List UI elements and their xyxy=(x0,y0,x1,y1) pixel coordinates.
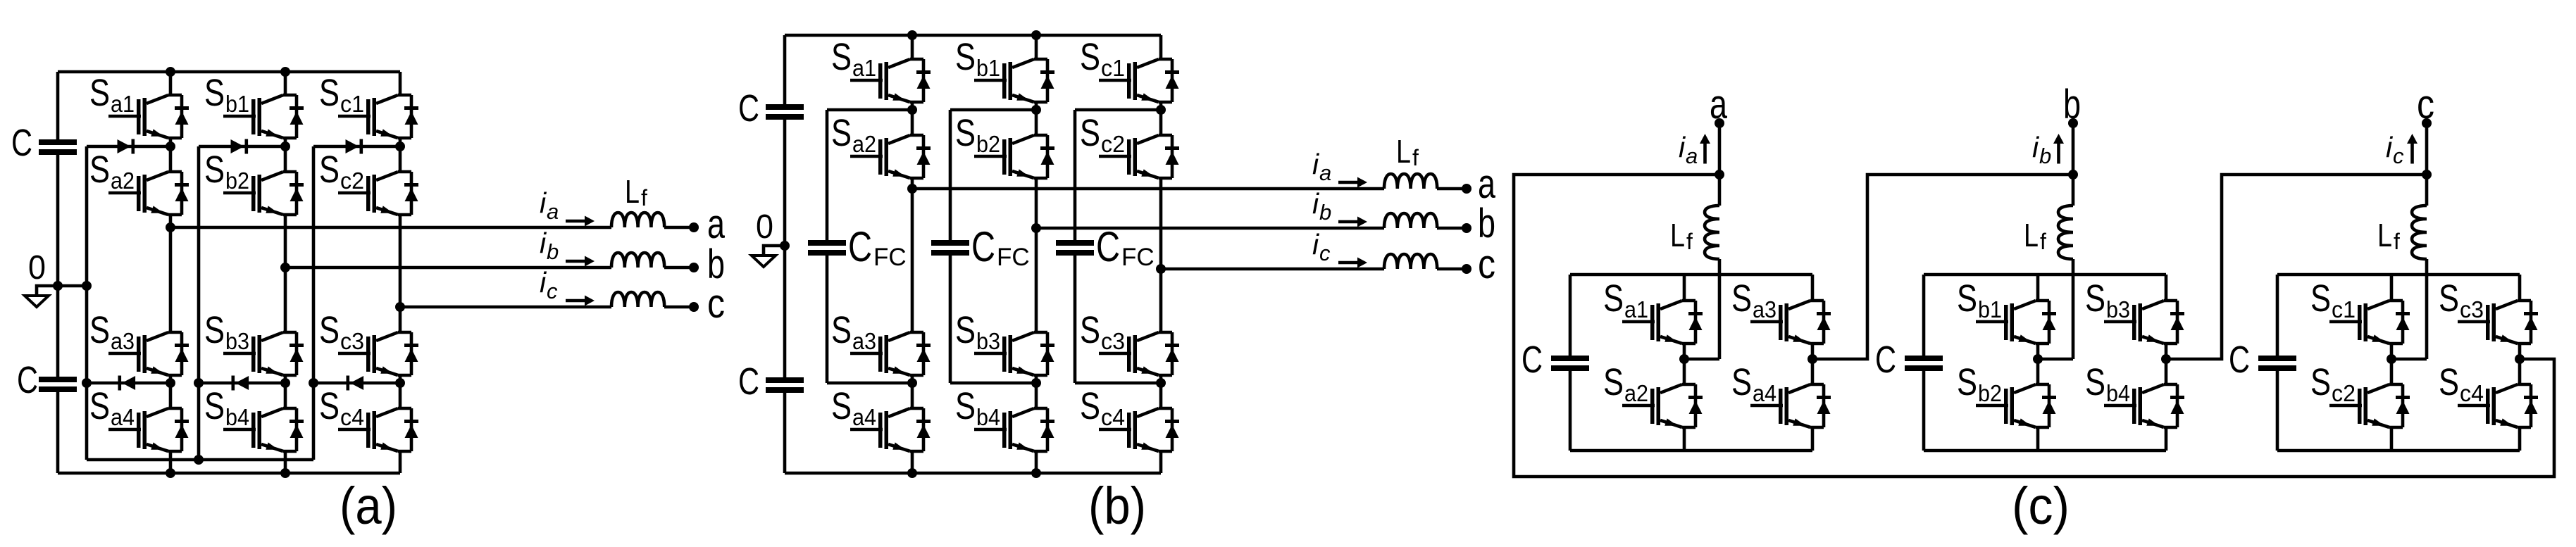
svg-text:C: C xyxy=(738,87,759,130)
junction: bridge c left leg midpoint (c) xyxy=(2387,354,2396,364)
svg-text:S: S xyxy=(1731,277,1752,320)
wire: leg c between Sc1 and Sc2 (b) xyxy=(1159,102,1163,135)
svg-text:c3: c3 xyxy=(1101,328,1125,354)
transistor Sb2 (IGBT, c) xyxy=(1957,361,2056,427)
junction: leg b between Sb3/Sb4 (b) xyxy=(1031,378,1041,388)
wire: output phase c (b) xyxy=(1161,268,1384,271)
transistor Sc2 (IGBT, b) xyxy=(1080,112,1179,178)
svg-text:a: a xyxy=(1686,144,1698,168)
inductor Lf phase c (b) xyxy=(1384,254,1437,269)
ground symbol (neutral, b) xyxy=(752,246,785,267)
svg-text:c2: c2 xyxy=(1101,131,1125,157)
wire: neutral link from rail to clamp rail (a) xyxy=(58,284,87,288)
svg-text:b4: b4 xyxy=(2106,380,2130,406)
svg-text:a3: a3 xyxy=(1753,296,1777,322)
junction: leg b between Sb3/Sb4 (a) xyxy=(280,378,290,388)
wire: upper clamp diode wire leg a (a) xyxy=(87,145,170,149)
junction: leg b at bottom rail (b) xyxy=(1031,468,1041,478)
junction: clamp rail b at lower diode (a) xyxy=(194,378,204,388)
wire: leg b collector lead Sb1 (a) xyxy=(284,72,287,95)
svg-text:FC: FC xyxy=(997,244,1030,271)
capacitor CFC leg c (b) xyxy=(1056,240,1094,256)
wire: Lf lower lead phase b (c) xyxy=(2072,259,2075,359)
svg-text:S: S xyxy=(89,385,110,427)
transistor Sb1 (IGBT, c) xyxy=(1957,277,2056,344)
terminal a (c) xyxy=(1715,118,1724,128)
wire: leg c collector lead Sc1 (b) xyxy=(1159,35,1163,59)
svg-text:c: c xyxy=(1319,241,1331,265)
wire: bridge a left leg emitter lead (c) xyxy=(1683,427,1686,451)
svg-text:c3: c3 xyxy=(2460,296,2484,322)
terminal c (b) xyxy=(1462,264,1471,274)
wire: leg a emitter lead Sa4 (a) xyxy=(169,451,173,473)
junction: leg b at top rail (b) xyxy=(1031,30,1041,40)
svg-text:C: C xyxy=(1875,339,1896,381)
junction: clamp rail c at lower diode (a) xyxy=(309,378,318,388)
wire: output phase a (b) xyxy=(912,187,1384,191)
svg-text:S: S xyxy=(319,309,340,351)
node a: phase tap on leg a (b) xyxy=(907,184,917,194)
label CFC leg c (b) xyxy=(1096,223,1155,271)
wire: leg b emitter lead Sb4 (a) xyxy=(284,451,287,473)
junction: neutral at clamp rail a xyxy=(82,281,92,291)
svg-text:S: S xyxy=(89,149,110,191)
wire: bridge a right leg mid section (c) xyxy=(1811,344,1815,384)
svg-text:S: S xyxy=(1957,361,1977,403)
wire: inductor to terminal b (b) xyxy=(1437,227,1467,230)
wire: bridge a left leg collector lead (c) xyxy=(1683,275,1686,301)
wire: bridge c midpoint tap link (c) xyxy=(2391,358,2427,361)
wire: Lf upper lead phase a (c) xyxy=(1718,175,1722,206)
svg-text:c2: c2 xyxy=(340,168,364,194)
ground symbol (neutral, a) xyxy=(25,286,58,307)
capacitor C (lower DC-link, b) xyxy=(766,377,804,393)
svg-text:S: S xyxy=(319,72,340,114)
wire: flying-cap top link leg c (b) xyxy=(1075,108,1161,112)
junction: leg b at bottom rail (a) xyxy=(280,468,290,478)
svg-text:C: C xyxy=(17,359,38,401)
svg-text:S: S xyxy=(831,385,852,427)
svg-text:a: a xyxy=(1710,82,1728,127)
current label ic (b) xyxy=(1312,228,1331,265)
svg-text:L: L xyxy=(1670,217,1685,253)
terminal c (c) xyxy=(2422,118,2432,128)
wire: leg c output section (b) xyxy=(1159,178,1163,332)
transistor Sb3 (IGBT, c) xyxy=(2085,277,2184,344)
svg-text:c: c xyxy=(2393,144,2404,168)
svg-text:a: a xyxy=(547,199,559,224)
wire: inductor to terminal a (a) xyxy=(664,226,694,230)
svg-text:S: S xyxy=(204,72,225,114)
wire: output phase b (a) xyxy=(285,266,611,270)
wire: leg b output section (a) xyxy=(284,215,287,332)
wire: bridge a left edge upper (c) xyxy=(1569,275,1572,356)
svg-text:c: c xyxy=(707,281,725,327)
wire: flying-cap rail upper b (b) xyxy=(949,110,952,240)
wire: output phase c (a) xyxy=(400,306,611,309)
svg-text:b3: b3 xyxy=(225,328,249,354)
label CFC leg a (b) xyxy=(848,223,907,271)
wire: leg a output section (a) xyxy=(169,215,173,332)
svg-text:a: a xyxy=(1319,161,1331,185)
transistor Sa1 (IGBT, b) xyxy=(831,36,931,102)
svg-text:S: S xyxy=(319,385,340,427)
capacitor C (DC-link bridge c, c) xyxy=(2258,356,2296,371)
circuit (a): three-level NPC inverter xyxy=(11,67,726,535)
inductor Lf phase b (b) xyxy=(1384,213,1437,228)
svg-text:b: b xyxy=(1478,201,1495,246)
svg-text:c4: c4 xyxy=(1101,404,1125,430)
svg-text:b3: b3 xyxy=(976,328,1000,354)
junction: leg a between Sa3/Sa4 (a) xyxy=(166,378,175,388)
svg-text:c4: c4 xyxy=(2460,380,2484,406)
terminal b (c) xyxy=(2068,118,2078,128)
current label ib (c) xyxy=(2032,131,2051,168)
wire: bridge a right leg emitter lead (c) xyxy=(1811,427,1815,451)
transistor Sb4 (IGBT, b) xyxy=(955,385,1054,451)
wire: flying-cap rail upper c (b) xyxy=(1074,110,1077,240)
wire: leg c between Sc1 and Sc2 (a) xyxy=(399,138,402,172)
svg-text:a1: a1 xyxy=(1624,296,1648,322)
wire: leg b between Sb1 and Sb2 (a) xyxy=(284,138,287,172)
current label ic (c) xyxy=(2386,131,2404,168)
junction: leg a at bottom rail (b) xyxy=(907,468,917,478)
wire: clamp rail a vertical (a) xyxy=(85,146,89,460)
wire: leg a collector lead Sa1 (a) xyxy=(169,72,173,95)
svg-text:S: S xyxy=(204,149,225,191)
inductor Lf phase b (a) xyxy=(611,253,664,268)
svg-text:(a): (a) xyxy=(340,477,397,535)
svg-text:FC: FC xyxy=(1121,244,1155,271)
wire: upper clamp diode wire leg b (a) xyxy=(199,145,285,149)
svg-text:S: S xyxy=(955,385,976,427)
current label ia (b) xyxy=(1312,148,1331,185)
svg-text:0: 0 xyxy=(28,249,46,287)
wire: bridge b right leg mid section (c) xyxy=(2165,344,2168,384)
transistor Sa4 (IGBT, b) xyxy=(831,385,931,451)
svg-text:S: S xyxy=(1603,361,1624,403)
svg-text:b4: b4 xyxy=(976,404,1000,430)
node b: phase tap on leg b (a) xyxy=(280,263,290,272)
svg-text:c4: c4 xyxy=(340,404,364,430)
svg-text:b1: b1 xyxy=(1978,296,2002,322)
svg-text:a3: a3 xyxy=(111,328,135,354)
wire: flying-cap bottom link leg c (b) xyxy=(1075,382,1161,385)
current label ic (a) xyxy=(540,266,558,303)
wire: leg a emitter lead Sa4 (b) xyxy=(911,451,914,473)
wire: inductor to terminal a (b) xyxy=(1437,187,1467,191)
wire: bridge-b output to phase-c node (c) xyxy=(2166,175,2427,359)
svg-text:S: S xyxy=(1957,277,1977,320)
svg-text:b: b xyxy=(1319,200,1331,225)
wire: left DC rail upper segment (a) xyxy=(56,72,60,139)
svg-text:S: S xyxy=(955,309,976,351)
wire: terminal a lead (c) xyxy=(1718,123,1722,175)
current arrow ib (c) xyxy=(2053,134,2064,164)
wire: top DC rail (a) xyxy=(58,70,400,74)
wire: bridge c left leg emitter lead (c) xyxy=(2390,427,2394,451)
capacitor C (lower DC-link, a) xyxy=(39,377,77,392)
transistor Sb2 (IGBT, b) xyxy=(955,112,1054,178)
wire: Lf upper lead phase b (c) xyxy=(2072,175,2075,206)
junction: leg c between Sc1/Sc2 (a) xyxy=(395,142,405,151)
wire: top DC rail (b) xyxy=(785,34,1161,37)
svg-text:S: S xyxy=(831,309,852,351)
inductor Lf phase a (b) xyxy=(1384,174,1437,189)
svg-text:S: S xyxy=(2310,361,2331,403)
node b: phase tap on leg b (b) xyxy=(1031,223,1041,233)
svg-text:S: S xyxy=(955,36,976,78)
svg-text:c: c xyxy=(2417,82,2434,127)
junction: neutral at left rail (a) xyxy=(53,281,63,291)
wire: leg c emitter lead Sc4 (b) xyxy=(1159,451,1163,473)
circuit (c): cascaded H-bridge inverter (delta-connected) xyxy=(1514,82,2554,535)
svg-text:S: S xyxy=(1080,309,1100,351)
svg-text:b2: b2 xyxy=(1978,380,2002,406)
wire: bridge c bottom rail (c) xyxy=(2277,449,2520,453)
terminal a (b) xyxy=(1462,184,1471,194)
wire: inductor to terminal c (a) xyxy=(664,306,694,309)
transistor Sb3 (IGBT, b) xyxy=(955,309,1054,375)
svg-text:L: L xyxy=(2024,217,2039,253)
junction: leg a between Sa3/Sa4 (b) xyxy=(907,378,917,388)
svg-text:C: C xyxy=(11,122,32,164)
wire: flying-cap rail lower b (b) xyxy=(949,256,952,383)
current arrow ib (b) xyxy=(1338,217,1367,227)
svg-text:c2: c2 xyxy=(2332,380,2356,406)
svg-text:c1: c1 xyxy=(340,91,364,117)
junction: bridge b right leg midpoint (c) xyxy=(2161,354,2171,364)
clamp diode Dc6 (lower, a) xyxy=(347,376,364,391)
svg-text:(b): (b) xyxy=(1088,477,1146,535)
svg-text:S: S xyxy=(2085,277,2105,320)
junction: clamp rail a at lower diode (a) xyxy=(82,378,92,388)
junction: leg b at top rail (a) xyxy=(280,67,290,77)
wire: bridge b top rail (c) xyxy=(1924,273,2166,277)
current arrow ic (a) xyxy=(566,296,595,306)
svg-text:C: C xyxy=(738,360,759,403)
wire: flying-cap bottom link leg a (b) xyxy=(827,382,912,385)
wire: bridge b bottom rail (c) xyxy=(1924,449,2166,453)
wire: output phase a (a) xyxy=(170,226,611,230)
terminal c (a) xyxy=(689,302,699,312)
wire: lower clamp diode wire leg b (a) xyxy=(199,382,285,385)
svg-text:S: S xyxy=(831,112,852,154)
junction: clamp rail b at tie (a) xyxy=(194,455,204,465)
svg-text:a4: a4 xyxy=(111,404,135,430)
wire: Lf upper lead phase c (c) xyxy=(2425,175,2429,206)
junction: leg b between Sb1/Sb2 (b) xyxy=(1031,105,1041,115)
svg-text:a: a xyxy=(707,201,726,247)
terminal b (b) xyxy=(1462,223,1471,233)
svg-text:(c): (c) xyxy=(2012,477,2070,535)
wire: bottom DC rail (b) xyxy=(785,472,1161,475)
transistor Sb1 (IGBT, a) xyxy=(204,72,304,138)
label CFC leg b (b) xyxy=(971,223,1030,271)
svg-text:FC: FC xyxy=(873,244,907,271)
label Lf phase a (c) xyxy=(1670,217,1693,254)
transistor Sa4 (IGBT, a) xyxy=(89,385,189,451)
capacitor C (upper DC-link, b) xyxy=(766,104,804,120)
svg-text:c: c xyxy=(547,279,558,303)
wire: bridge c right leg collector lead (c) xyxy=(2518,275,2522,301)
junction: leg a between Sa1/Sa2 (a) xyxy=(166,142,175,151)
wire: output phase b (b) xyxy=(1036,227,1384,230)
current arrow ia (b) xyxy=(1338,177,1367,188)
current arrow ic (b) xyxy=(1338,258,1367,268)
junction: bridge a left leg midpoint (c) xyxy=(1679,354,1689,364)
svg-text:0: 0 xyxy=(756,208,773,246)
wire: bridge b left edge upper (c) xyxy=(1922,275,1926,356)
svg-text:S: S xyxy=(1731,361,1752,403)
wire: leg a between Sa3 and Sa4 (a) xyxy=(169,375,173,408)
junction: leg a at top rail (a) xyxy=(166,67,175,77)
wire: bridge b left leg emitter lead (c) xyxy=(2036,427,2040,451)
capacitor C (DC-link bridge b, c) xyxy=(1905,356,1943,371)
svg-text:c: c xyxy=(1478,241,1495,287)
transistor Sc4 (IGBT, a) xyxy=(319,385,418,451)
wire: flying-cap rail upper a (b) xyxy=(826,110,829,240)
svg-text:S: S xyxy=(319,149,340,191)
wire: leg b collector lead Sb1 (b) xyxy=(1035,35,1038,59)
current label ib (a) xyxy=(540,227,559,264)
svg-text:C: C xyxy=(971,223,995,270)
wire: leg b emitter lead Sb4 (b) xyxy=(1035,451,1038,473)
transistor Sc2 (IGBT, a) xyxy=(319,149,418,215)
transistor Sc1 (IGBT, b) xyxy=(1080,36,1179,102)
wire: clamp rail b vertical (a) xyxy=(197,146,201,460)
wire: leg c emitter lead Sc4 (a) xyxy=(399,451,402,473)
junction: leg a at top rail (b) xyxy=(907,30,917,40)
svg-text:S: S xyxy=(1080,385,1100,427)
wire: left DC rail middle segment (b) xyxy=(783,120,787,377)
svg-text:S: S xyxy=(2310,277,2331,320)
transistor Sc4 (IGBT, c) xyxy=(2439,361,2538,427)
junction: neutral node 0 (b) xyxy=(780,241,790,251)
wire: leg c collector lead Sc1 (a) xyxy=(399,72,402,95)
wire: bridge a right leg collector lead (c) xyxy=(1811,275,1815,301)
svg-text:S: S xyxy=(2439,361,2459,403)
transistor Sb3 (IGBT, a) xyxy=(204,309,304,375)
inductor Lf phase c (c) xyxy=(2412,206,2427,259)
svg-text:L: L xyxy=(625,173,640,210)
svg-text:C: C xyxy=(848,223,872,270)
wire: bridge a left edge lower (c) xyxy=(1569,371,1572,451)
node c: phase tap on leg c (a) xyxy=(395,302,405,312)
svg-text:S: S xyxy=(2085,361,2105,403)
transistor Sb1 (IGBT, b) xyxy=(955,36,1054,102)
svg-text:S: S xyxy=(2439,277,2459,320)
wire: flying-cap top link leg a (b) xyxy=(827,108,912,112)
wire: inner clamp-rail tie bottom (a) xyxy=(87,458,313,462)
current label ia (c) xyxy=(1679,131,1698,168)
wire: left DC rail lower segment (b) xyxy=(783,393,787,473)
wire: left DC rail middle segment (a) xyxy=(56,155,60,377)
wire: leg a output section (b) xyxy=(911,178,914,332)
wire: flying-cap rail lower a (b) xyxy=(826,256,829,383)
current arrow ia (a) xyxy=(566,216,595,227)
capacitor CFC leg b (b) xyxy=(931,240,969,256)
svg-text:S: S xyxy=(955,112,976,154)
junction: leg a at bottom rail (a) xyxy=(166,468,175,478)
wire: Lf lower lead phase c (c) xyxy=(2425,259,2429,359)
svg-text:a2: a2 xyxy=(111,168,135,194)
wire: leg b between Sb3 and Sb4 (a) xyxy=(284,375,287,408)
junction: bridge c right leg midpoint (c) xyxy=(2515,354,2525,364)
transistor Sc1 (IGBT, a) xyxy=(319,72,418,138)
junction: leg c between Sc3/Sc4 (b) xyxy=(1156,378,1166,388)
transistor Sc2 (IGBT, c) xyxy=(2310,361,2410,427)
transistor Sc3 (IGBT, b) xyxy=(1080,309,1179,375)
inductor Lf phase a (c) xyxy=(1705,206,1719,259)
wire: inductor to terminal c (b) xyxy=(1437,268,1467,271)
node c: phase tap on leg c (b) xyxy=(1156,264,1166,274)
svg-text:b2: b2 xyxy=(976,131,1000,157)
transistor Sa3 (IGBT, a) xyxy=(89,309,189,375)
capacitor C (upper DC-link, a) xyxy=(39,139,77,155)
wire: flying-cap bottom link leg b (b) xyxy=(950,382,1036,385)
wire: bottom DC rail (a) xyxy=(58,472,400,475)
transistor Sa3 (IGBT, b) xyxy=(831,309,931,375)
inductor Lf phase c (a) xyxy=(611,292,664,307)
svg-text:S: S xyxy=(89,309,110,351)
wire: leg b between Sb1 and Sb2 (b) xyxy=(1035,102,1038,135)
svg-text:S: S xyxy=(204,309,225,351)
clamp diode Dc5 (upper, a) xyxy=(346,139,363,154)
wire: flying-cap top link leg b (b) xyxy=(950,108,1036,112)
current label ia (a) xyxy=(540,187,559,224)
transistor Sa3 (IGBT, c) xyxy=(1731,277,1831,344)
junction: leg c between Sc1/Sc2 (b) xyxy=(1156,105,1166,115)
svg-text:b1: b1 xyxy=(225,91,249,117)
wire: bridge a bottom rail (c) xyxy=(1570,449,1812,453)
wire: bridge c right leg emitter lead (c) xyxy=(2518,427,2522,451)
transistor Sa2 (IGBT, a) xyxy=(89,149,189,215)
svg-text:a2: a2 xyxy=(1624,380,1648,406)
capacitor C (DC-link bridge a, c) xyxy=(1551,356,1589,371)
wire: leg b between Sb3 and Sb4 (b) xyxy=(1035,375,1038,408)
inductor Lf phase b (c) xyxy=(2058,206,2073,259)
transistor Sa4 (IGBT, c) xyxy=(1731,361,1831,427)
wire: terminal c lead (c) xyxy=(2425,123,2429,175)
wire: bridge b left edge lower (c) xyxy=(1922,371,1926,451)
wire: bridge-a output to phase-b node (c) xyxy=(1812,175,2073,359)
clamp diode Da6 (lower, a) xyxy=(118,376,136,391)
wire: Lf lower lead phase a (c) xyxy=(1718,259,1722,359)
label Lf (a) xyxy=(625,173,647,210)
svg-text:a1: a1 xyxy=(852,55,876,81)
transistor Sc3 (IGBT, a) xyxy=(319,309,418,375)
wire: leg c between Sc3 and Sc4 (b) xyxy=(1159,375,1163,408)
wire: leg a between Sa1 and Sa2 (b) xyxy=(911,102,914,135)
svg-text:f: f xyxy=(2394,229,2400,254)
svg-text:c1: c1 xyxy=(1101,55,1125,81)
junction: phase a node (c) xyxy=(1715,170,1724,180)
junction: leg a between Sa1/Sa2 (b) xyxy=(907,105,917,115)
wire: bridge c left leg mid section (c) xyxy=(2390,344,2394,384)
svg-text:C: C xyxy=(2229,339,2250,381)
wire: left DC rail upper segment (b) xyxy=(783,35,787,104)
junction: leg b between Sb1/Sb2 (a) xyxy=(280,142,290,151)
wire: bridge b right leg collector lead (c) xyxy=(2165,275,2168,301)
svg-text:L: L xyxy=(1396,133,1411,170)
svg-text:a1: a1 xyxy=(111,91,135,117)
current arrow ia (c) xyxy=(1700,134,1710,164)
svg-text:L: L xyxy=(2377,217,2392,253)
clamp diode Da5 (upper, a) xyxy=(118,139,135,154)
clamp diode Db5 (upper, a) xyxy=(231,139,249,154)
wire: bridge c left edge upper (c) xyxy=(2276,275,2279,356)
